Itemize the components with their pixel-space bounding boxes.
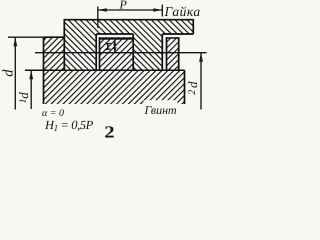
nut tooth 1 right flank xyxy=(95,34,97,70)
screw right tooth right flank xyxy=(178,37,180,70)
pitch line d2 level xyxy=(35,52,207,54)
nut strip bottom edge right part xyxy=(162,33,193,35)
svg-text:P: P xyxy=(119,0,128,12)
nut strip top edge xyxy=(64,19,194,21)
screw body xyxy=(44,70,185,104)
dimension d2 line xyxy=(200,53,202,110)
nut tooth 2 right flank xyxy=(161,34,163,70)
H1 bottom arrow xyxy=(113,47,116,53)
dimension d extension line xyxy=(8,36,47,38)
screw left tooth crest xyxy=(44,36,65,38)
P left extension line xyxy=(97,7,99,29)
dimension d1 arrow xyxy=(29,70,33,79)
svg-text:d: d xyxy=(1,69,17,77)
screw middle tooth left flank xyxy=(99,37,101,70)
screw tooth right crest bar xyxy=(167,37,179,39)
P right extension line xyxy=(161,5,163,17)
svg-text:2: 2 xyxy=(187,90,198,95)
white notch above screw label xyxy=(144,100,178,104)
screw tooth right xyxy=(167,37,179,70)
svg-text:d: d xyxy=(16,92,31,99)
svg-text:d: d xyxy=(185,81,200,88)
P right arrow xyxy=(153,8,162,12)
dimension d line xyxy=(14,37,16,109)
screw tooth left xyxy=(44,37,65,70)
H1 top arrow xyxy=(113,40,116,46)
screw tooth middle xyxy=(100,37,134,70)
nut strip bottom edge over middle groove xyxy=(96,33,133,35)
nut tooth 1 xyxy=(64,34,96,70)
screw tooth middle crest bar xyxy=(100,37,134,39)
screw left face xyxy=(43,37,45,104)
dimension d1 line xyxy=(30,70,32,109)
dimension d2 arrow xyxy=(199,53,203,62)
root line d1 level xyxy=(25,69,185,71)
svg-text:H1 = 0,5P: H1 = 0,5P xyxy=(44,118,94,133)
nut body strip xyxy=(64,20,193,34)
P left arrow xyxy=(98,8,107,12)
nut tooth 2 xyxy=(133,34,162,70)
dimension H1 line xyxy=(114,40,116,53)
svg-text:Гвинт: Гвинт xyxy=(144,103,178,117)
nut tooth 2 left flank / screw tooth 2 right flank xyxy=(132,34,134,70)
nut strip right face xyxy=(192,19,194,34)
svg-text:2: 2 xyxy=(104,123,114,142)
label H1 drawn as strokes (rotated) xyxy=(105,43,111,52)
dimension P line xyxy=(98,9,163,11)
screw body right face xyxy=(184,70,186,104)
outlines xyxy=(44,19,194,104)
nut left face xyxy=(63,19,65,70)
svg-text:1: 1 xyxy=(18,99,29,104)
screw right tooth left flank xyxy=(166,37,168,70)
svg-text:Гайка: Гайка xyxy=(164,4,201,19)
dimension d arrow xyxy=(13,37,17,46)
